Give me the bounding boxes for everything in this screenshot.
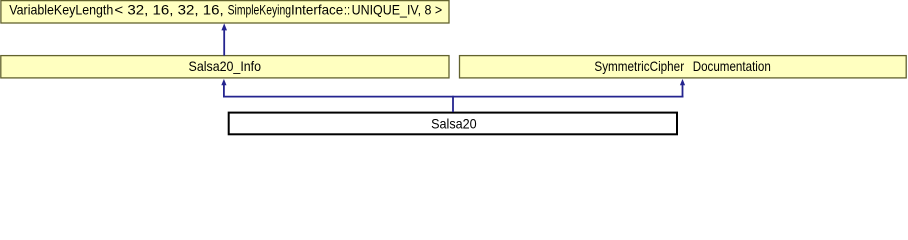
node SymmetricCipherDocumentation bbox=[460, 56, 907, 78]
arrowhead at SymmetricCipherDocumentation bbox=[680, 79, 685, 85]
wire vertical up to Salsa20_Info bbox=[223, 84, 225, 98]
svg-text:Salsa20_Info: Salsa20_Info bbox=[189, 58, 262, 74]
wire vertical up to SymmetricCipherDocumentation bbox=[682, 84, 684, 98]
wire inheritance edge Salsa20_Info to VariableKeyLength bbox=[223, 30, 225, 56]
svg-text:Salsa20: Salsa20 bbox=[431, 116, 477, 132]
node VariableKeyLength (template base class box) bbox=[1, 1, 449, 23]
arrowhead at VariableKeyLength bbox=[221, 23, 227, 30]
svg-text:SymmetricCipherDocumentation: SymmetricCipherDocumentation bbox=[594, 58, 770, 74]
wire horizontal branch bus bbox=[223, 96, 683, 98]
node Salsa20 (current class box) bbox=[229, 113, 677, 135]
node Salsa20_Info bbox=[1, 56, 449, 78]
arrowhead at Salsa20_Info bbox=[221, 79, 226, 85]
wire stub from Salsa20 up to branch point bbox=[452, 96, 454, 112]
